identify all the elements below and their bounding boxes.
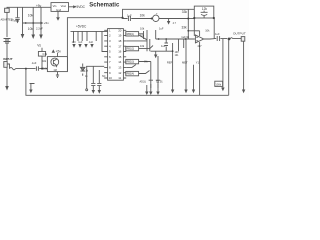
svg-text:.1uF: .1uF [88,41,93,44]
svg-text:1uF(1): 1uF(1) [181,35,189,39]
svg-text:Y1: Y1 [196,61,200,65]
svg-text:1uF: 1uF [215,32,220,36]
svg-text:RB3(4): RB3(4) [127,73,135,76]
svg-text:1uF: 1uF [78,41,83,44]
svg-text:10k: 10k [140,44,145,48]
svg-text:INPUT: INPUT [3,57,12,61]
svg-text:+5v: +5v [44,21,49,25]
svg-text:Vs: Vs [37,44,41,48]
svg-text:100k: 100k [215,82,221,86]
svg-text:1M: 1M [53,69,56,72]
svg-text:18: 18 [118,39,122,43]
svg-text:Gnd: Gnd [56,8,62,12]
svg-text:20: 20 [118,28,122,32]
svg-text:NC: NC [102,75,106,78]
svg-text:10k: 10k [205,28,210,32]
svg-text:+5VDC: +5VDC [76,25,87,29]
svg-text:14: 14 [118,60,122,64]
svg-text:1uF: 1uF [159,27,164,31]
svg-text:+5v: +5v [36,4,42,8]
svg-text:12: 12 [118,71,122,75]
svg-text:10k: 10k [140,27,145,31]
svg-text:10k: 10k [28,27,34,31]
svg-text:10k: 10k [140,33,145,37]
svg-text:17: 17 [118,44,122,48]
svg-text:11: 11 [118,76,121,80]
svg-text:REF: REF [167,61,173,65]
svg-text:33k: 33k [182,10,188,14]
svg-text:12k: 12k [202,7,208,11]
svg-text:Vin: Vin [53,4,57,8]
svg-text:RB1(2): RB1(2) [127,48,135,51]
svg-text:1uF: 1uF [127,13,132,17]
svg-text:Vout: Vout [61,4,67,8]
svg-text:+5VDC: +5VDC [75,5,86,9]
svg-text:16: 16 [118,50,122,54]
svg-text:RB0(1): RB0(1) [127,33,135,36]
svg-text:2.2uF: 2.2uF [36,26,43,30]
svg-text:19: 19 [118,34,122,38]
svg-text:10: 10 [109,76,113,80]
svg-text:ADJ(): ADJ() [140,80,147,83]
svg-text:OUTPUT: OUTPUT [233,32,246,36]
svg-text:+5v: +5v [56,50,62,54]
svg-text:10k: 10k [140,14,146,18]
svg-text:10k: 10k [28,13,34,17]
svg-text:1uF: 1uF [161,44,166,48]
svg-text:47uF: 47uF [11,18,17,22]
svg-text:4k7: 4k7 [197,44,202,48]
svg-text:33k: 33k [182,26,188,30]
svg-text:C1.01: C1.01 [156,80,163,83]
svg-text:Schematic: Schematic [89,2,120,8]
svg-text:100: 100 [72,41,77,44]
svg-text:.1uF: .1uF [31,61,37,65]
svg-text:13: 13 [118,66,122,70]
svg-text:MET: MET [182,61,188,65]
svg-text:15: 15 [118,55,122,59]
svg-text:3.3k: 3.3k [42,53,47,56]
svg-text:910k: 910k [42,67,48,71]
svg-text:RB2(3): RB2(3) [127,61,135,64]
